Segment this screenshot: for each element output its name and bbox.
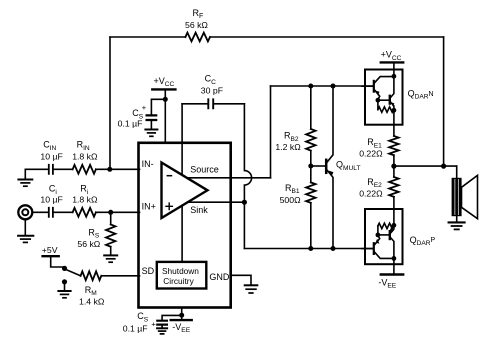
node rail/QMULT emitter xyxy=(331,246,336,251)
node sink/CC junction xyxy=(242,200,247,205)
svg-text:0.22Ω: 0.22Ω xyxy=(359,149,383,159)
resistor RB2 xyxy=(310,86,312,129)
svg-text:1.2 kΩ: 1.2 kΩ xyxy=(275,142,301,152)
svg-text:0.1 µF: 0.1 µF xyxy=(123,323,148,333)
resistor RM xyxy=(81,271,102,280)
transistor QDARP (darlington block) xyxy=(365,209,403,264)
svg-text:56 kΩ: 56 kΩ xyxy=(185,20,208,30)
resistor RE1 xyxy=(393,126,395,137)
node QMULT base junction xyxy=(308,164,313,169)
ground (RS) xyxy=(104,254,117,256)
ground (GND pin) xyxy=(245,284,258,286)
svg-text:Circuitry: Circuitry xyxy=(163,276,194,286)
ground (CS VEE) xyxy=(157,327,167,329)
speaker LS1 xyxy=(452,179,461,216)
svg-text:SD: SD xyxy=(142,266,155,276)
svg-text:56 kΩ: 56 kΩ xyxy=(77,239,100,249)
svg-text:IN-: IN- xyxy=(142,159,154,169)
capacitor CS bypass (VCC) xyxy=(151,99,165,114)
wire SD xyxy=(101,275,139,277)
ground (IN- input source) xyxy=(24,169,26,178)
capacitor CS bypass (VEE) xyxy=(162,315,182,319)
wire CC left riser (passes behind op-amp) xyxy=(181,104,183,261)
IC boundary box xyxy=(139,143,231,308)
svg-text:500Ω: 500Ω xyxy=(280,195,301,205)
wire IN+ input xyxy=(33,211,140,213)
resistor RE2 xyxy=(393,166,395,177)
switch S1 xyxy=(62,266,67,271)
supply +VCC (right) xyxy=(381,61,403,63)
svg-text:1.4 kΩ: 1.4 kΩ xyxy=(79,297,105,307)
+5V supply xyxy=(43,255,59,257)
svg-text:Sink: Sink xyxy=(190,205,208,215)
node IN- feedback junction xyxy=(107,167,112,172)
node rail/RB1 xyxy=(308,246,313,251)
node VCC/CS junction xyxy=(163,97,168,102)
svg-text:+5V: +5V xyxy=(42,245,58,255)
svg-text:1.8 kΩ: 1.8 kΩ xyxy=(72,194,98,204)
shutdown circuitry block xyxy=(157,262,207,289)
wire feedback top xyxy=(110,36,444,38)
resistor RIN xyxy=(73,165,96,174)
wire IN- input xyxy=(25,168,139,170)
svg-text:0.1 µF: 0.1 µF xyxy=(118,119,143,129)
ground (jack) xyxy=(24,220,26,235)
wire GND pin xyxy=(232,275,251,284)
resistor RS xyxy=(110,212,112,224)
wire top rail (source side) xyxy=(271,85,374,87)
supply pin +VCC bar xyxy=(152,88,175,90)
wire bottom rail (sink side) xyxy=(244,248,373,250)
node rail/QMULT collector xyxy=(331,84,336,89)
svg-text:IN+: IN+ xyxy=(142,202,156,212)
connector input jack xyxy=(18,205,32,219)
svg-text:+: + xyxy=(151,319,156,328)
svg-text:10 µF: 10 µF xyxy=(40,152,62,162)
resistor RB1 xyxy=(310,166,312,182)
svg-text:10 µF: 10 µF xyxy=(40,194,62,204)
node V-/CS junction xyxy=(179,313,184,318)
op-amp U1 xyxy=(162,163,208,219)
svg-text:+: + xyxy=(142,103,147,112)
ground (speaker) xyxy=(456,216,458,222)
resistor RF xyxy=(185,33,210,42)
transistor QMULT xyxy=(311,165,325,167)
wire source riser xyxy=(270,86,272,178)
transistor QDARN (darlington block) xyxy=(365,70,403,125)
svg-text:1.8 kΩ: 1.8 kΩ xyxy=(72,152,98,162)
capacitor CC xyxy=(182,103,244,105)
wire feedback left riser xyxy=(109,37,111,169)
wire output node xyxy=(394,165,457,167)
wire source output xyxy=(187,177,271,179)
svg-text:Source: Source xyxy=(190,164,219,174)
node rail/RB2 xyxy=(308,84,313,89)
node output (RE1/RE2) xyxy=(391,164,396,169)
wire to speaker xyxy=(456,166,458,178)
wire bottom V- pin xyxy=(181,309,183,315)
wire feedback right riser xyxy=(443,37,445,166)
ground (switch) xyxy=(64,284,66,291)
wire +5V to switch xyxy=(51,257,63,267)
resistor Ri xyxy=(73,208,96,217)
node output/feedback/speaker xyxy=(441,164,446,169)
svg-text:30 pF: 30 pF xyxy=(201,86,223,96)
svg-text:GND: GND xyxy=(209,272,230,282)
capacitor Ci xyxy=(49,208,53,217)
capacitor CIN xyxy=(49,165,53,174)
wire VCC to QDARN xyxy=(393,64,395,77)
supply -VEE (right) xyxy=(393,258,395,273)
wire CC right riser with hop over source wire xyxy=(244,104,251,249)
node IN+ junction xyxy=(108,210,113,215)
ground (CS VCC) xyxy=(145,129,157,131)
supply -VEE (bottom) xyxy=(181,315,183,319)
wire sink output xyxy=(188,201,244,203)
svg-text:0.22Ω: 0.22Ω xyxy=(359,188,383,198)
svg-text:Shutdown: Shutdown xyxy=(162,266,199,276)
wire VCC pin xyxy=(164,91,166,142)
